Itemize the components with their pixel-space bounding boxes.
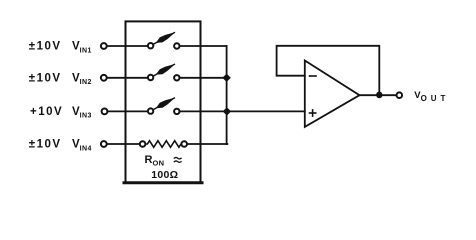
svg-text:VIN4: VIN4 bbox=[72, 139, 92, 153]
svg-text:+10V: +10V bbox=[30, 106, 63, 118]
svg-text:VIN1: VIN1 bbox=[72, 41, 92, 55]
svg-text:±10V: ±10V bbox=[29, 41, 62, 53]
svg-text:VOUT: VOUT bbox=[414, 90, 449, 103]
svg-text:±10V: ±10V bbox=[29, 73, 62, 85]
svg-text:±10V: ±10V bbox=[29, 139, 62, 151]
svg-text:VIN3: VIN3 bbox=[72, 106, 92, 120]
svg-text:RON: RON bbox=[145, 154, 165, 167]
svg-text:100Ω: 100Ω bbox=[151, 169, 178, 181]
svg-text:VIN2: VIN2 bbox=[72, 73, 92, 87]
